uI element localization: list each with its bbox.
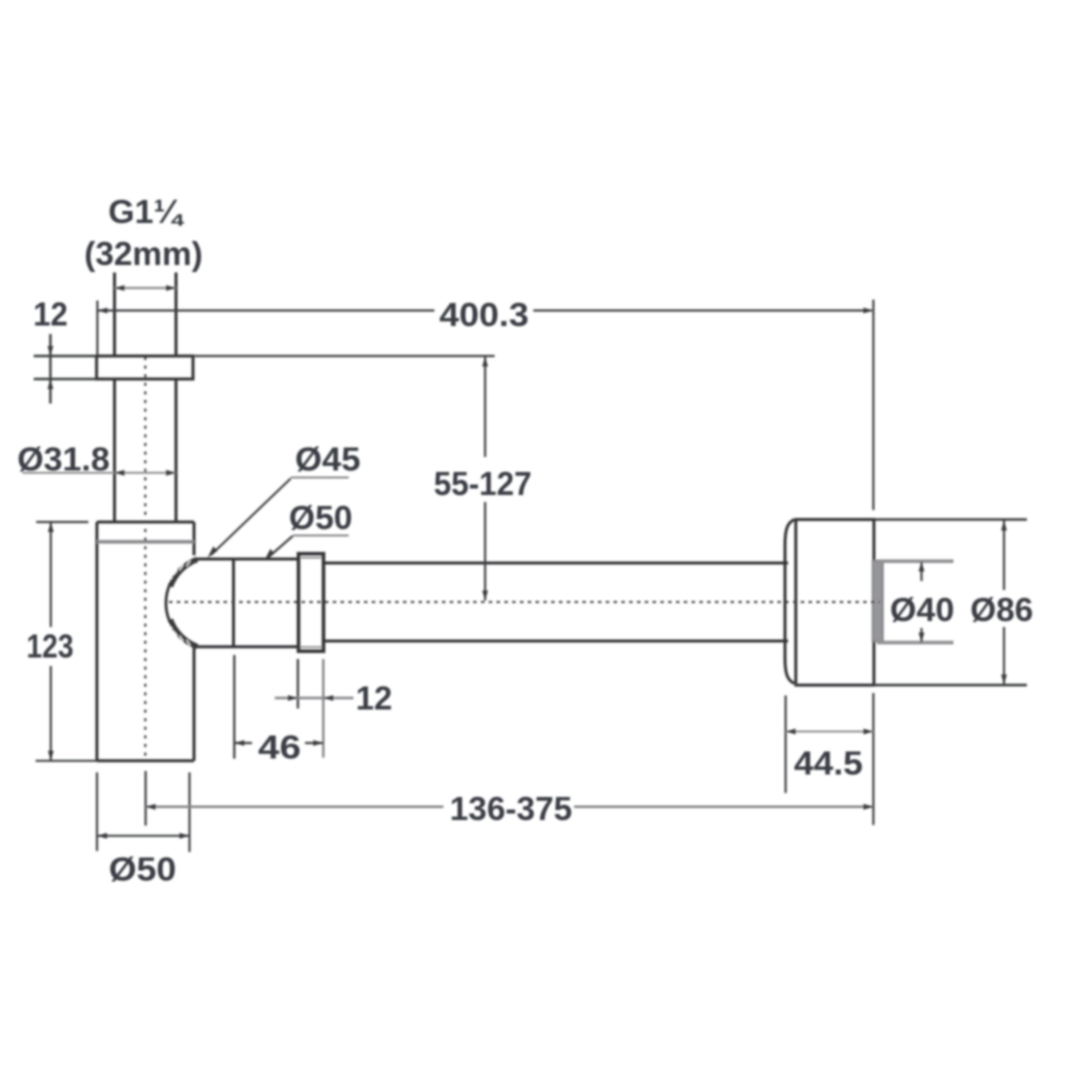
svg-text:Ø86: Ø86 xyxy=(970,592,1033,629)
svg-text:55-127: 55-127 xyxy=(434,466,532,503)
svg-text:44.5: 44.5 xyxy=(794,746,863,783)
svg-text:Ø40: Ø40 xyxy=(890,592,955,629)
svg-text:Ø50: Ø50 xyxy=(289,500,353,537)
svg-text:(32mm): (32mm) xyxy=(84,236,203,273)
svg-text:Ø45: Ø45 xyxy=(295,442,361,479)
svg-text:G1¼: G1¼ xyxy=(108,194,185,231)
svg-text:12: 12 xyxy=(356,681,393,718)
svg-text:12: 12 xyxy=(33,297,68,334)
svg-text:Ø50: Ø50 xyxy=(109,852,177,889)
svg-text:400.3: 400.3 xyxy=(439,297,529,334)
svg-text:123: 123 xyxy=(27,629,74,666)
svg-text:136-375: 136-375 xyxy=(450,791,573,828)
svg-text:46: 46 xyxy=(258,730,301,767)
svg-text:Ø31.8: Ø31.8 xyxy=(17,442,110,479)
